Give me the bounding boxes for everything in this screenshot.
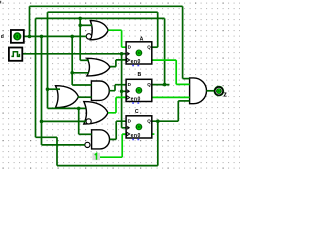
wire to G6 bubble input [42, 144, 85, 146]
wire QA stub from FFA Q [152, 46, 158, 48]
wire H2 rail [48, 11, 158, 13]
svg-text:z: z [223, 91, 227, 98]
node FFB Q tee [163, 83, 167, 87]
wire clock descent x121.6 [121, 54, 123, 128]
node H3 tee x80.2 [78, 17, 82, 21]
svg-text:en0: en0 [131, 133, 141, 139]
wire G6 upper input [79, 133, 92, 135]
wire H3 rail [36, 17, 165, 19]
wire bottom rail jog [36, 121, 158, 165]
wire G6 output to FFC D [110, 121, 127, 139]
wire net d: pin output horizontal [22, 6, 214, 165]
wire row y108.4 to G5 upper input [48, 107, 86, 109]
bright (logic 1) wires [100, 30, 190, 157]
wire H1 descent x182 [182, 6, 184, 78]
and-gate G4 [91, 81, 109, 100]
flip-flop C [126, 116, 152, 141]
wire riser x29.5 to H1 [29, 6, 31, 36]
wire to G5 bubble input [42, 120, 87, 122]
flip-flop A [126, 42, 152, 66]
wire QC to output gate input 4 [178, 100, 189, 102]
wire stub to output gate top input [183, 78, 190, 80]
or-gate G5 with inverted lower input [84, 102, 108, 124]
bubble on G1 lower input [86, 34, 91, 39]
svg-text:en0: en0 [131, 59, 141, 65]
node pin d branch down x41.5 [40, 35, 44, 39]
clock input [9, 48, 22, 61]
node G1 input branch [78, 24, 82, 28]
wire d pin row [24, 35, 86, 37]
node pin d branch down x72.2 [70, 35, 74, 39]
svg-text:C: C [135, 109, 139, 115]
junction dots [28, 17, 167, 124]
wire output gate to pin z [206, 90, 214, 92]
bubble on G6 lower input [85, 142, 90, 147]
wire descent x80.2 from H3 [79, 18, 81, 60]
wire G2 output to FFA clk [110, 60, 126, 67]
and-gate U7 output [190, 78, 207, 104]
wire G1 upper input [80, 24, 92, 26]
svg-text:d: d [1, 34, 4, 40]
wire clock net horizontal [22, 53, 126, 55]
wire G4 output to FFB D [109, 85, 126, 91]
wire descent x78.7 [78, 108, 80, 134]
wire FFB Q output row [152, 84, 170, 86]
wire QA riser x157.7 to H2 [157, 12, 159, 47]
svg-text:A: A [140, 36, 144, 42]
svg-text:B: B [138, 72, 142, 78]
input pin d [11, 30, 24, 43]
or-gate G2 [87, 58, 110, 76]
svg-text:en0: en0 [131, 96, 141, 102]
wire G3 upper input [48, 88, 61, 90]
wire Qbar B to output gate input 3 [152, 96, 190, 98]
and-gate G6 with inverted lower input [92, 130, 110, 149]
node G3 input branch [46, 87, 50, 91]
wire H1 top rail [30, 5, 183, 7]
svg-text:Q: Q [147, 82, 151, 87]
wire descent x41.5 [41, 36, 43, 144]
wire QC from FFC Q [152, 120, 179, 122]
constant 1 [92, 153, 100, 160]
wire Qbar A to output gate input 2 [152, 60, 190, 84]
wire G4 upper input [72, 84, 91, 86]
wire G1 output to FFA D [108, 30, 126, 47]
node FFB en branch [120, 90, 124, 94]
wire QA descent x47.5 [47, 12, 49, 108]
wire G3 output to G4 lower input [78, 96, 92, 98]
wire clock stub FFB en [122, 90, 127, 92]
svg-text:Q: Q [147, 45, 151, 50]
node QC rail branch [156, 119, 160, 123]
wire H3 left descent x35.5 [35, 18, 37, 137]
node G2 lower input branch [70, 71, 74, 75]
wire G2 upper input [80, 59, 89, 61]
output pin z [214, 86, 224, 96]
wire Qbar C stub [152, 133, 155, 135]
wire clock stub FFC en [122, 127, 127, 129]
corner artifact [0, 1, 1, 4]
svg-text:Q: Q [147, 119, 151, 124]
node G5 bubble branch [40, 120, 44, 124]
wire H3 right descent x164.6 [164, 18, 166, 84]
or-gate G1 with inverted lower input [90, 21, 108, 40]
wire descent x72.2 [71, 36, 73, 85]
wire constant 1 to FFC clk [100, 134, 126, 157]
flip-flop B [126, 79, 152, 103]
wire G2 lower input [72, 72, 88, 74]
wire QC riser x178.3 [177, 101, 179, 121]
node pin d branch up [28, 35, 32, 39]
or-gate G3 [56, 86, 79, 108]
node G5 G6 branch [77, 107, 81, 111]
node clock branch [120, 52, 124, 56]
bubble on G5 lower input [86, 119, 91, 124]
wire G5 output to FFB clk [108, 97, 126, 112]
